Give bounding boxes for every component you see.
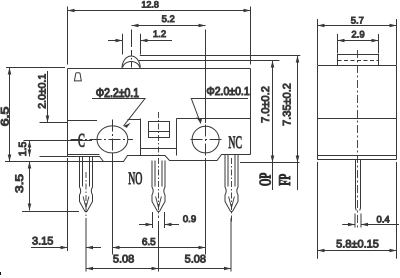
dim 6.5 bottom bbox=[113, 155, 206, 255]
svg-text:5.2: 5.2 bbox=[162, 14, 175, 25]
svg-text:C: C bbox=[78, 131, 85, 152]
dim 0.4 bbox=[342, 214, 399, 228]
dim 0.9 bbox=[139, 212, 196, 228]
pin NC centerline bbox=[231, 158, 233, 222]
dim 5.08 left bbox=[86, 218, 159, 272]
center rect hole bbox=[149, 122, 170, 138]
svg-text:2.0±0.1: 2.0±0.1 bbox=[36, 74, 48, 109]
molded mark (cork shape) bbox=[74, 73, 81, 81]
hole C crosshair bbox=[71, 120, 134, 159]
body right view parting line bbox=[318, 118, 397, 120]
svg-text:3.15: 3.15 bbox=[32, 235, 53, 247]
body bottom contour bbox=[68, 155, 251, 162]
leader Φ2.0±0.1 bbox=[191, 85, 250, 123]
svg-text:7.35±0.2: 7.35±0.2 bbox=[281, 83, 293, 126]
dim 5.2 bbox=[132, 14, 206, 123]
dim 3.15 bbox=[31, 158, 101, 251]
dim 12.8 bbox=[68, 0, 251, 64]
plunger centerline bbox=[131, 30, 133, 48]
dim 2.0±0.1 bbox=[36, 71, 67, 123]
plunger dome inner arc (operating position) bbox=[123, 62, 140, 68]
body outline bbox=[68, 69, 251, 157]
svg-text:7.0±0.2: 7.0±0.2 bbox=[260, 86, 272, 123]
svg-text:OP: OP bbox=[256, 173, 275, 187]
dim 6.5 left bbox=[0, 68, 104, 162]
svg-text:2.9: 2.9 bbox=[351, 30, 364, 41]
pin NO centerline bbox=[158, 112, 160, 218]
dim 2.9 bbox=[338, 30, 379, 54]
dim 1.5 bbox=[17, 141, 92, 157]
dim 7.0±0.2 bbox=[240, 61, 300, 191]
svg-text:NO: NO bbox=[128, 168, 142, 188]
svg-text:6.5: 6.5 bbox=[0, 107, 12, 127]
svg-text:Φ2.0±0.1: Φ2.0±0.1 bbox=[206, 85, 249, 98]
svg-text:0.9: 0.9 bbox=[183, 214, 196, 225]
svg-text:1.2: 1.2 bbox=[153, 29, 166, 40]
pin C (solder terminal) bbox=[80, 157, 93, 212]
plunger side extension lines bbox=[123, 34, 141, 55]
dim 5.8±0.15 bbox=[318, 162, 397, 259]
dim 5.7 bbox=[318, 15, 397, 65]
svg-text:5.7: 5.7 bbox=[351, 15, 364, 26]
body right view bottom lip bbox=[318, 156, 397, 160]
OP level line bbox=[139, 60, 280, 62]
dim 3.5 bbox=[14, 162, 79, 212]
body right view bbox=[318, 66, 397, 160]
svg-text:12.8: 12.8 bbox=[141, 0, 159, 9]
hole NC circle bbox=[192, 126, 219, 153]
dim 1.2 bbox=[108, 29, 172, 42]
svg-text:5.08: 5.08 bbox=[113, 254, 134, 266]
button right view bbox=[338, 55, 379, 66]
svg-text:5.08: 5.08 bbox=[185, 254, 206, 266]
hole NC crosshair bbox=[191, 139, 224, 141]
leader Φ2.2±0.1 bbox=[92, 86, 145, 128]
hole C circle bbox=[97, 126, 128, 153]
plunger dome outer arc (free position) bbox=[122, 56, 140, 68]
svg-text:0.4: 0.4 bbox=[376, 214, 389, 225]
svg-text:1.5: 1.5 bbox=[17, 141, 29, 156]
pin NO (solder terminal) bbox=[152, 161, 165, 212]
svg-text:6.5: 6.5 bbox=[142, 237, 156, 248]
svg-text:5.8±0.15: 5.8±0.15 bbox=[336, 239, 379, 251]
dim 5.08 right bbox=[159, 218, 232, 272]
edge artifact bottom-left bbox=[0, 272, 1, 275]
svg-text:NC: NC bbox=[228, 132, 242, 152]
pin C centerline bbox=[85, 172, 87, 222]
FP level line bbox=[140, 55, 300, 57]
case parting line bbox=[68, 119, 251, 121]
centerline right view bbox=[357, 50, 359, 228]
svg-text:FP: FP bbox=[275, 174, 294, 186]
pin NC (solder terminal) bbox=[225, 155, 238, 212]
button pressed dashed line bbox=[338, 60, 379, 62]
center platform bbox=[141, 119, 177, 156]
dim 7.35±0.2 bbox=[275, 56, 299, 191]
svg-text:3.5: 3.5 bbox=[14, 174, 26, 193]
pin right view bbox=[356, 160, 361, 211]
